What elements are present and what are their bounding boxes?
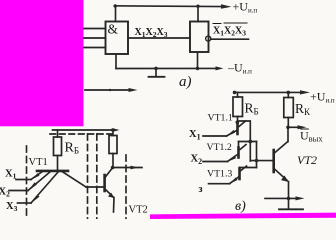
wire +U supply rail (top) bbox=[115, 5, 224, 8]
wire VT1 collector to VT2' base bbox=[86, 186, 104, 188]
input wire X1 (circuit v) bbox=[203, 135, 227, 137]
svg-text:Х1Х2Х3: Х1Х2Х3 bbox=[213, 26, 246, 38]
wire +U rail of circuit b) bbox=[53, 129, 115, 131]
input wire X2 (circuit v) bbox=[203, 161, 228, 163]
input wire X1 (gate U1 pin) bbox=[84, 28, 106, 30]
wire R2 top lead bbox=[112, 130, 114, 136]
transistor VT2' emitter bbox=[106, 190, 114, 198]
wire gate U2 output bbox=[211, 38, 249, 40]
node junction dot rail/gate U1 top lead bbox=[114, 4, 117, 7]
svg-text:VT2: VT2 bbox=[129, 205, 148, 216]
node junction dot ground tap bbox=[154, 67, 158, 71]
node junction dot collector/output bbox=[111, 166, 115, 170]
transistor VT1.3 base bar bbox=[238, 169, 241, 180]
transistor VT1.1 base bar bbox=[236, 124, 239, 134]
transistor VT2' collector bbox=[106, 168, 113, 177]
gate U2 inverter body bbox=[190, 22, 209, 53]
svg-text:VT1: VT1 bbox=[29, 157, 48, 168]
svg-text:VT1.3: VT1.3 bbox=[207, 169, 232, 180]
wire output arrow Uvyh bbox=[288, 126, 299, 128]
input wire X1 (circuit b) bbox=[16, 179, 31, 181]
dashed IC boundary right edge bbox=[125, 155, 127, 219]
dashed IC boundary left edge bbox=[26, 146, 28, 219]
wire Rk top lead bbox=[287, 92, 289, 97]
transistor VT1 emitter 1 bbox=[31, 172, 43, 180]
node junction dot rail/gate U2 bottom lead bbox=[196, 67, 200, 71]
ground GND2 bar bbox=[279, 208, 303, 210]
wire VT1.2 base lead bbox=[238, 142, 240, 148]
arrowhead b) rail bbox=[113, 128, 120, 132]
wire R2 bottom lead to collector node bbox=[112, 154, 114, 168]
wire output of circuit b) bbox=[113, 167, 142, 169]
svg-text:VT2: VT2 bbox=[297, 153, 317, 167]
transistor VT1.2 collector bbox=[240, 145, 246, 150]
overline of NOT X1X2X3 label (segment 2) bbox=[224, 22, 248, 24]
arrowhead +U rail bbox=[221, 4, 232, 9]
node junction dot bus2/VT2 base wire bbox=[255, 159, 259, 163]
wire gate U2 bottom lead bbox=[197, 52, 199, 69]
wire -U supply rail (bottom) bbox=[116, 67, 217, 69]
arrowhead -U rail bbox=[216, 66, 224, 70]
input wire X3 (gate U1 pin) bbox=[84, 47, 106, 49]
overline of NOT X1X2X3 label (segment 1) bbox=[213, 23, 222, 25]
transistor VT1 collector bbox=[62, 172, 86, 188]
transistor VT2' base bar bbox=[103, 175, 106, 191]
wire gate U2 top lead bbox=[197, 6, 199, 21]
node junction dot rail/R2 bbox=[111, 128, 115, 132]
wire Rb top lead (v) bbox=[237, 92, 239, 97]
gate U1 AND (&) body bbox=[106, 22, 129, 55]
transistor VT2 collector bbox=[275, 142, 288, 153]
arrowhead ground rail bbox=[296, 196, 305, 200]
wire Rb1 bottom lead to VT1 base bbox=[57, 156, 59, 171]
svg-text:VT1.2: VT1.2 bbox=[207, 142, 232, 153]
magenta redaction block top-left bbox=[0, 0, 84, 126]
transistor VT1 emitter 2 bbox=[28, 172, 51, 191]
wire +U rail of circuit v) bbox=[234, 91, 302, 93]
transistor VT2 base bar (circuit v) bbox=[272, 150, 275, 172]
transistor VT1.2 emitter bbox=[228, 155, 238, 162]
dashed IC boundary inner edge 2 bbox=[96, 134, 98, 219]
resistor Rb (circuit b) bbox=[54, 137, 62, 156]
wire VT2 emitter lead down bbox=[288, 182, 290, 209]
overline of Uvyh label bbox=[300, 128, 309, 130]
transistor VT2 emitter bbox=[275, 170, 287, 181]
transistor VT1 emitter 3 bbox=[31, 172, 59, 204]
svg-text:а): а) bbox=[179, 74, 192, 90]
input wire X3 (circuit b) bbox=[18, 202, 32, 204]
node junction dot rail left end / Rb lead bbox=[233, 91, 237, 95]
transistor VT1.1 collector bbox=[239, 121, 246, 127]
transistor VT1.1 emitter bbox=[227, 131, 237, 137]
wire VT2 collector lead up bbox=[287, 127, 289, 141]
ground GND1 bbox=[155, 68, 157, 76]
wire VT1.1 diode tie (collector loop) bbox=[238, 121, 251, 161]
wire VT1.3 base lead bbox=[239, 168, 241, 169]
wire gate U1 top lead bbox=[115, 6, 117, 22]
wire ground rail (circuit v) bbox=[265, 197, 297, 199]
node junction dot A (Rb / VT1.1 base-collector) bbox=[236, 121, 240, 125]
transistor VT1.3 collector bbox=[241, 166, 247, 171]
wire Rb bottom lead to node A bbox=[237, 117, 239, 125]
node junction dot emitter/ground rail bbox=[287, 197, 291, 201]
svg-text:Х1Х2Х3: Х1Х2Х3 bbox=[135, 27, 168, 39]
input wire X2 (circuit b) bbox=[9, 190, 28, 192]
wire VT1.2 diode tie horizontal bbox=[239, 141, 257, 143]
wire VT1.3 diode tie horizontal bbox=[240, 167, 257, 169]
wire VT2' emitter lead down bbox=[113, 198, 116, 213]
node junction dot bus/VT1.2 tie bbox=[248, 140, 252, 144]
wire bus 2 vertical bbox=[256, 142, 258, 168]
node junction dot collector/output (v) bbox=[286, 126, 290, 130]
svg-text:з: з bbox=[199, 184, 203, 195]
svg-text:VT1.1: VT1.1 bbox=[208, 113, 233, 124]
inversion bubble gate U2 output bbox=[206, 36, 211, 41]
dashed IC boundary inner edge 1 bbox=[87, 134, 89, 219]
transistor VT1.3 emitter bbox=[230, 177, 239, 184]
wire Rk bottom lead bbox=[287, 118, 289, 128]
resistor R2 (collector resistor, circuit b) bbox=[109, 136, 117, 154]
node junction dot rail / Rk lead bbox=[287, 91, 291, 95]
wire gate U1 output to gate U2 input bbox=[128, 37, 190, 39]
transistor VT1.2 base bar bbox=[237, 148, 240, 158]
svg-text:в): в) bbox=[235, 199, 246, 214]
wire Rb1 top lead bbox=[57, 130, 59, 137]
resistor Rb (circuit v) bbox=[233, 97, 243, 117]
transistor VT1 multi-emitter: base bar bbox=[37, 170, 68, 173]
wire arrow marker (signal flow, below circuit a) bbox=[85, 89, 131, 91]
arrowhead +U rail v) bbox=[300, 90, 310, 94]
resistor Rk (circuit v) bbox=[284, 98, 294, 118]
magenta redaction bar bottom-right bbox=[150, 213, 336, 219]
input wire X3 (circuit v) bbox=[209, 183, 230, 185]
dashed IC boundary top edge bbox=[50, 133, 115, 135]
wire gate U1 bottom lead bbox=[115, 54, 117, 69]
input wire X2 (gate U1 pin) bbox=[84, 37, 106, 39]
svg-text:&: & bbox=[108, 22, 119, 37]
node junction dot rail/gate U2 top lead bbox=[196, 5, 199, 8]
wire bus to VT2 base bbox=[250, 160, 273, 162]
